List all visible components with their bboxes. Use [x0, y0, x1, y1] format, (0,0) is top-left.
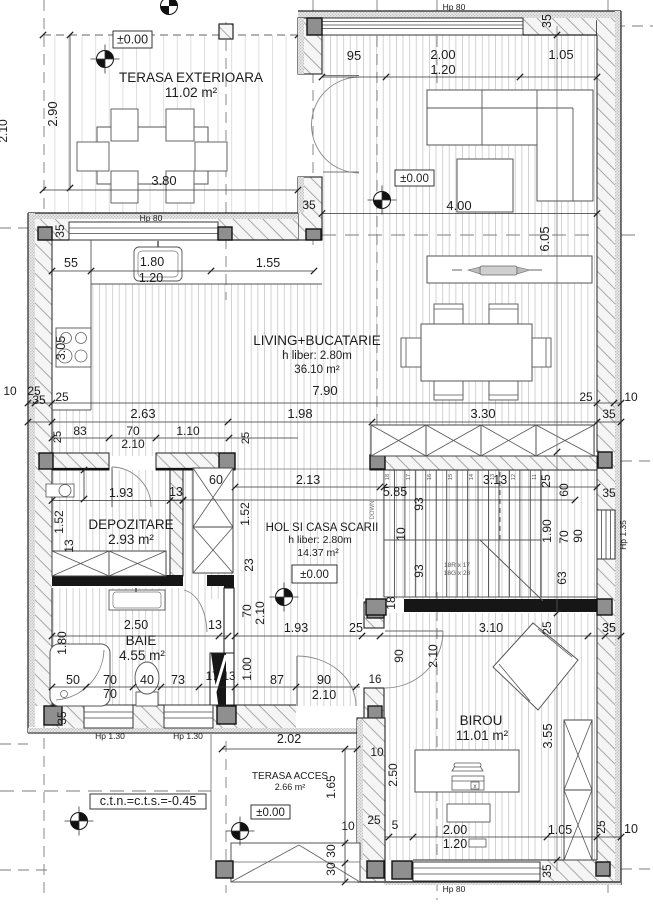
svg-text:BAIE: BAIE — [126, 633, 157, 648]
wall kitchen-north stipple — [28, 213, 298, 219]
svg-text:70: 70 — [557, 530, 571, 544]
svg-text:23: 23 — [242, 558, 256, 572]
svg-text:DEPOZITARE: DEPOZITARE — [88, 517, 173, 532]
svg-text:60: 60 — [209, 473, 223, 487]
wall top outline — [298, 10, 621, 12]
axis line vertical B (terasa column) — [225, 22, 227, 300]
axis line vertical F (x608) — [607, 0, 609, 900]
svg-text:2.10: 2.10 — [0, 119, 10, 143]
svg-text:25: 25 — [349, 621, 363, 635]
axis line vertical D — [376, 0, 378, 455]
terasa chair 2 — [166, 109, 194, 141]
svg-text:3.10: 3.10 — [479, 621, 503, 635]
svg-text:DOWN: DOWN — [370, 501, 376, 520]
svg-text:35: 35 — [602, 407, 616, 421]
axis line horizontal y791 left — [0, 790, 211, 792]
svg-text:1.20: 1.20 — [443, 837, 467, 851]
wall birou-west stub2 — [364, 688, 384, 730]
wardrobe band above stairs — [371, 425, 594, 456]
elev box terasa — [113, 31, 152, 48]
svg-text:±0.00: ±0.00 — [256, 807, 285, 819]
column living-west — [306, 229, 321, 240]
svg-text:35: 35 — [53, 224, 67, 238]
svg-text:18: 18 — [385, 474, 391, 480]
dining chair 2 — [489, 304, 518, 339]
column W2-left — [38, 227, 52, 240]
svg-text:2.13: 2.13 — [296, 473, 320, 487]
wall top hatched left pier — [298, 18, 322, 35]
svg-text:2.10: 2.10 — [312, 688, 336, 702]
wall birou-south pier — [540, 860, 597, 881]
svg-text:c.t.n.=c.t.s.=-0.45: c.t.n.=c.t.s.=-0.45 — [100, 794, 197, 808]
column hol-north-mid — [219, 453, 235, 469]
baie floor hatch — [52, 588, 211, 706]
dining chair 1 — [434, 304, 463, 339]
wall birou-west stub1 — [364, 602, 384, 628]
column birou-north-right — [597, 599, 612, 615]
wardrobe depozitare — [52, 551, 166, 576]
dining table — [421, 324, 532, 381]
terasa acces left boundary — [210, 734, 212, 860]
terasa chair 6 — [195, 142, 227, 171]
terasa table — [97, 127, 208, 184]
svg-text:70: 70 — [240, 604, 254, 618]
svg-text:TERASA EXTERIOARA: TERASA EXTERIOARA — [119, 70, 263, 85]
svg-text:3.80: 3.80 — [151, 173, 176, 188]
axis line vertical C (living wall) — [312, 0, 314, 248]
svg-text:12: 12 — [511, 474, 517, 480]
svg-text:Hp 80: Hp 80 — [140, 213, 163, 223]
keyboard — [452, 776, 484, 790]
svg-text:35: 35 — [602, 486, 616, 500]
terasa chair 1 — [111, 109, 138, 141]
svg-text:±0.00: ±0.00 — [300, 569, 329, 581]
svg-text:13: 13 — [169, 485, 183, 499]
svg-text:2.90: 2.90 — [45, 101, 60, 126]
axis line horizontal y468 right — [621, 460, 653, 462]
svg-text:11.01 m²: 11.01 m² — [456, 728, 509, 743]
shower — [50, 644, 110, 706]
svg-text:1.93: 1.93 — [109, 486, 133, 500]
svg-text:10: 10 — [624, 390, 638, 404]
wall terasa-acces-east — [357, 718, 385, 882]
svg-text:Hp 80: Hp 80 — [443, 884, 466, 894]
column top-right living — [597, 21, 612, 35]
svg-text:13: 13 — [223, 671, 236, 683]
svg-text:10: 10 — [624, 822, 638, 836]
column stairs-right — [598, 452, 612, 468]
svg-text:1.65: 1.65 — [324, 775, 338, 799]
coffee table — [457, 159, 513, 212]
svg-text:x: x — [474, 784, 477, 790]
terasa chair 5 — [77, 142, 109, 171]
svg-text:87: 87 — [270, 673, 284, 687]
desk — [415, 750, 519, 792]
terasa floor hatch — [43, 35, 298, 213]
kitchen hob — [56, 328, 91, 367]
wall baie-south stipple — [28, 728, 360, 734]
svg-text:1.05: 1.05 — [548, 823, 572, 837]
svg-text:11: 11 — [532, 474, 538, 480]
svg-text:2.50: 2.50 — [386, 763, 400, 787]
wall kitchen-north left pier — [35, 219, 69, 240]
axis line horizontal top wall — [560, 25, 653, 27]
depozitare floor hatch — [52, 470, 170, 576]
wc — [136, 692, 158, 706]
svg-text:93: 93 — [412, 564, 426, 578]
dining chair 6 — [519, 338, 551, 367]
svg-text:25: 25 — [367, 813, 381, 827]
elev box terasa acces — [251, 805, 290, 819]
svg-text:2.00: 2.00 — [443, 823, 467, 837]
window W3a baie (Hp 1.30) — [84, 705, 133, 728]
svg-text:35: 35 — [32, 393, 46, 407]
wall hol-north seg3 (stairs) — [370, 456, 597, 470]
wall kitchen-north outline — [28, 212, 298, 214]
svg-text:14: 14 — [469, 474, 475, 480]
svg-text:60: 60 — [557, 483, 571, 497]
svg-text:±0.00: ±0.00 — [400, 173, 429, 185]
svg-text:2.63: 2.63 — [130, 406, 155, 421]
svg-text:73: 73 — [171, 673, 185, 687]
elev symbol terasa top — [161, 0, 178, 15]
svg-text:18R x 17: 18R x 17 — [444, 562, 470, 569]
axis line horizontal y228 left — [0, 227, 30, 229]
elev box living — [395, 170, 434, 186]
wall top stipple — [298, 11, 621, 18]
column birou-west-top — [367, 602, 384, 618]
column birou-west-mid — [368, 706, 382, 721]
svg-text:10: 10 — [341, 819, 355, 833]
column W2-right — [218, 227, 232, 240]
boiler depozitare — [46, 484, 74, 497]
column steps-right — [367, 861, 384, 878]
svg-text:14.37 m²: 14.37 m² — [297, 547, 339, 559]
svg-text:30: 30 — [324, 862, 338, 876]
svg-text:13: 13 — [208, 618, 222, 632]
svg-text:25: 25 — [579, 390, 593, 404]
elev symbol ctn — [71, 813, 88, 830]
svg-text:h liber: 2.80m: h liber: 2.80m — [282, 350, 352, 362]
svg-text:2.66 m²: 2.66 m² — [275, 782, 306, 792]
svg-text:90: 90 — [317, 673, 331, 687]
svg-text:17: 17 — [406, 474, 412, 480]
axis line vertical A — [43, 0, 45, 900]
svg-text:35: 35 — [302, 198, 316, 212]
svg-text:63: 63 — [555, 571, 569, 585]
dim line x557 — [556, 26, 558, 871]
svg-text:2.10: 2.10 — [426, 644, 440, 668]
column top-left living — [307, 18, 322, 35]
threshold living-hol — [235, 468, 370, 470]
wall birou-north dark — [404, 599, 597, 612]
wall baie-south outline — [28, 732, 360, 734]
wall baie-south pier1 — [52, 705, 84, 728]
wall depozitare-hol — [170, 470, 183, 576]
french door living — [323, 75, 359, 77]
svg-text:25: 25 — [539, 474, 553, 488]
terasa chair 4 — [166, 171, 194, 203]
office chair diamond — [493, 623, 578, 710]
svg-text:LIVING+BUCATARIE: LIVING+BUCATARIE — [253, 333, 380, 348]
wardrobe birou — [564, 720, 592, 860]
wall hol-north seg2 — [156, 453, 235, 470]
terasa chair 3 — [111, 171, 138, 203]
wall left stipple — [28, 213, 35, 727]
monitor — [452, 766, 483, 771]
svg-text:10: 10 — [394, 527, 408, 541]
small item birou — [469, 839, 486, 847]
staircase treads — [383, 470, 385, 597]
svg-text:5: 5 — [392, 818, 399, 832]
svg-text:36.10 m²: 36.10 m² — [294, 364, 340, 376]
column birou-north-left — [366, 599, 386, 615]
door depozitare — [111, 467, 113, 507]
svg-text:10: 10 — [370, 745, 384, 759]
svg-text:70: 70 — [103, 687, 117, 701]
svg-text:2.02: 2.02 — [277, 732, 301, 746]
svg-text:1.80: 1.80 — [140, 255, 164, 269]
svg-text:2.50: 2.50 — [124, 618, 148, 632]
terasa dashed outline — [43, 34, 298, 36]
svg-text:4.00: 4.00 — [446, 198, 471, 213]
axis line horizontal living y235 — [322, 234, 640, 236]
hol+stairs floor hatch — [183, 470, 597, 599]
svg-text:18G x 28: 18G x 28 — [444, 570, 471, 577]
terasa edge column — [219, 24, 233, 39]
column baie-hol — [219, 707, 233, 721]
svg-text:1.55: 1.55 — [256, 256, 280, 270]
svg-text:2.00: 2.00 — [430, 47, 455, 62]
column baie-south-left — [44, 706, 62, 725]
svg-text:30: 30 — [324, 844, 338, 858]
kitchen sink — [134, 247, 182, 281]
wall baie-south pier3 — [213, 705, 296, 728]
svg-text:Hp 1.30: Hp 1.30 — [173, 731, 203, 741]
window W4 birou (Hp 80) — [413, 862, 540, 881]
svg-text:1.10: 1.10 — [176, 424, 200, 438]
svg-text:1.05: 1.05 — [548, 47, 573, 62]
svg-text:6.05: 6.05 — [537, 226, 552, 251]
wall right hatch lower — [597, 559, 615, 881]
living floor hatch — [52, 35, 597, 456]
kitchen island — [427, 256, 592, 283]
svg-text:13: 13 — [62, 539, 76, 553]
svg-text:25: 25 — [55, 390, 69, 404]
svg-text:5.85: 5.85 — [383, 485, 407, 499]
hol lower floor hatch — [234, 588, 357, 706]
wall terasa-living upper — [298, 18, 322, 74]
svg-text:10: 10 — [3, 384, 17, 398]
dining chair 4 — [489, 367, 518, 400]
svg-text:h liber: 2.80m: h liber: 2.80m — [288, 534, 352, 546]
svg-text:3.30: 3.30 — [470, 406, 495, 421]
svg-text:70: 70 — [103, 673, 117, 687]
entrance door — [296, 656, 298, 706]
column birou-south-left — [392, 861, 412, 879]
svg-text:90: 90 — [571, 529, 585, 543]
svg-text:3.13: 3.13 — [483, 473, 507, 487]
svg-text:16: 16 — [369, 674, 382, 686]
svg-text:4.55 m²: 4.55 m² — [119, 648, 165, 663]
svg-text:95: 95 — [347, 48, 361, 63]
svg-text:35: 35 — [55, 711, 69, 725]
wall left outline — [27, 213, 29, 733]
window W3b baie (Hp 1.30) — [164, 705, 213, 728]
birou floor hatch — [385, 613, 597, 860]
kitchen counter white — [52, 240, 322, 284]
svg-text:Hp 1.30: Hp 1.30 — [95, 731, 125, 741]
svg-text:16: 16 — [427, 474, 433, 480]
svg-text:2.93 m²: 2.93 m² — [108, 532, 154, 547]
wall baie-hol thin — [224, 588, 234, 706]
axis line horizontal y744 left — [0, 743, 28, 745]
svg-text:1.98: 1.98 — [287, 406, 312, 421]
door birou — [385, 630, 443, 632]
svg-text:7.90: 7.90 — [312, 383, 337, 398]
column steps-left — [216, 861, 233, 878]
svg-text:93: 93 — [412, 497, 426, 511]
svg-text:TERASA ACCES: TERASA ACCES — [252, 771, 328, 782]
svg-text:1.52: 1.52 — [52, 510, 66, 534]
door baie — [184, 590, 207, 632]
sofa L — [427, 90, 593, 201]
side table birou — [447, 804, 490, 822]
elev box hol — [292, 565, 337, 583]
dining chair 5 — [401, 338, 423, 367]
axis line horizontal y871 right — [621, 868, 653, 870]
svg-text:3.55: 3.55 — [540, 723, 555, 748]
svg-text:35: 35 — [540, 864, 554, 878]
wall baie-north dark — [52, 575, 183, 586]
svg-text:50: 50 — [66, 673, 80, 687]
svg-text:15: 15 — [448, 474, 454, 480]
wall top hatched right pier — [523, 18, 597, 35]
svg-text:±0.00: ±0.00 — [117, 33, 148, 47]
wall birou-south stipple — [384, 881, 621, 885]
svg-text:83: 83 — [73, 424, 87, 438]
entrance steps — [231, 843, 360, 882]
svg-text:Hp 1.35: Hp 1.35 — [618, 520, 628, 550]
kitchen counter edge — [90, 240, 92, 410]
dining chair 3 — [434, 367, 463, 400]
label ctn — [90, 794, 206, 809]
window W2 kitchen (Hp 80) — [69, 222, 218, 240]
svg-text:1.20: 1.20 — [139, 271, 163, 285]
elev symbol living — [374, 192, 391, 209]
wall right outline — [620, 11, 622, 885]
washbasin vanity — [109, 590, 165, 610]
elev symbol terasa acces — [232, 823, 249, 840]
column baie-south-right — [217, 706, 236, 724]
shaft black — [211, 653, 226, 710]
svg-text:11.02 m²: 11.02 m² — [165, 85, 218, 100]
wall right hatch upper — [597, 18, 615, 510]
wardrobe hol — [193, 468, 233, 573]
window W5 right (Hp 1.35) — [597, 510, 615, 559]
elev symbol terasa — [97, 51, 114, 68]
elev symbol hol — [276, 589, 293, 606]
svg-text:1.52: 1.52 — [238, 502, 252, 526]
svg-text:1.20: 1.20 — [430, 62, 455, 77]
svg-text:35: 35 — [540, 14, 554, 28]
column birou-south-right — [596, 862, 610, 876]
wall left hatch — [35, 219, 52, 706]
svg-text:25: 25 — [540, 621, 554, 635]
wall terasa-living lower — [298, 177, 322, 240]
svg-text:40: 40 — [140, 673, 154, 687]
svg-text:1.90: 1.90 — [540, 519, 554, 543]
axis line vertical E (x437) — [436, 0, 438, 140]
wall birou-south outline — [357, 881, 621, 883]
svg-text:90: 90 — [392, 649, 406, 663]
svg-text:35: 35 — [602, 621, 616, 635]
svg-text:1.93: 1.93 — [284, 621, 308, 635]
svg-text:BIROU: BIROU — [460, 713, 503, 728]
column hol-north-left — [39, 453, 53, 469]
svg-text:1.00: 1.00 — [240, 657, 254, 681]
svg-text:2.10: 2.10 — [121, 437, 145, 451]
svg-text:1.80: 1.80 — [55, 631, 69, 655]
svg-text:HOL SI CASA SCARII: HOL SI CASA SCARII — [266, 522, 379, 534]
svg-text:25: 25 — [594, 820, 608, 834]
svg-text:18: 18 — [384, 596, 398, 610]
wall kitchen-north right pier — [218, 219, 298, 240]
svg-text:2.10: 2.10 — [253, 601, 267, 625]
svg-text:Hp 80: Hp 80 — [443, 2, 466, 12]
wall hol-north seg1 — [52, 453, 109, 470]
wall baie-south pier2 — [133, 705, 164, 728]
column stairs-left — [370, 455, 385, 469]
window W1 top — [322, 18, 523, 35]
svg-text:17: 17 — [206, 671, 219, 683]
svg-text:70: 70 — [126, 424, 140, 438]
svg-text:55: 55 — [64, 256, 78, 270]
wall right stipple — [615, 11, 621, 885]
